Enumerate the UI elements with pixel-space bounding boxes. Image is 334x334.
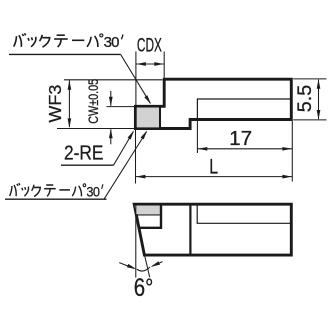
dimension L line xyxy=(136,175,293,179)
label back-taper 30' (bottom) leader xyxy=(104,129,149,199)
svg-text:2-RE: 2-RE xyxy=(64,143,104,165)
dimension CDX line xyxy=(136,62,164,66)
svg-text:6°: 6° xyxy=(134,275,154,302)
extension line: pocket top (short) xyxy=(107,106,135,108)
dimension CDX extension lines xyxy=(136,52,164,106)
angle 6deg: arc xyxy=(137,267,150,271)
lower view: insert (gray) xyxy=(135,206,160,215)
label back-taper 30' (top) underline xyxy=(9,53,121,55)
upper view: inner seat lines xyxy=(197,99,291,119)
upper view: insert right boundary line xyxy=(159,107,161,129)
svg-text:CW±0.05: CW±0.05 xyxy=(86,79,102,124)
angle 6deg: left arrow xyxy=(119,263,137,271)
lower view: tool body outline xyxy=(134,204,291,255)
label back-taper 30' (bottom) xyxy=(10,183,103,199)
dimension 17 extension lines xyxy=(197,121,292,182)
lower view: head/shank divider xyxy=(189,205,191,256)
svg-text:L: L xyxy=(209,156,218,179)
dimension L extension line xyxy=(135,130,137,184)
label back-taper 30' (top) xyxy=(14,33,123,51)
dimension 17 line xyxy=(197,147,292,151)
svg-text:5.5: 5.5 xyxy=(295,85,316,113)
lower view: inner seat lines xyxy=(197,205,291,224)
upper view: tool body outline xyxy=(135,79,291,128)
dimension CW±0.05 arrows xyxy=(109,91,113,144)
angle 6deg: slant extension line xyxy=(145,256,150,277)
label back-taper 30' (top) leader xyxy=(121,54,153,105)
angle 6deg: vertical reference line xyxy=(135,206,137,278)
label back-taper 30' (bottom) underline xyxy=(5,198,107,200)
lower view: pocket thick edges xyxy=(139,205,161,228)
upper view: carbide insert (gray) xyxy=(137,108,159,128)
dimension WF3 line xyxy=(68,80,72,128)
svg-text:WF3: WF3 xyxy=(45,85,65,123)
label 2-RE leader xyxy=(114,129,136,165)
angle 6deg: right arrow xyxy=(150,261,163,268)
label 2-RE underline xyxy=(61,164,114,166)
lower view: insert bottom thin line xyxy=(137,214,160,216)
dimension 5.5 extension lines xyxy=(293,79,326,120)
dimension 5.5 line xyxy=(317,79,321,119)
extension line: head bottom (left) xyxy=(57,128,135,130)
extension line: body top (left) xyxy=(64,79,163,81)
svg-text:17: 17 xyxy=(229,128,252,150)
svg-text:CDX: CDX xyxy=(137,35,162,57)
